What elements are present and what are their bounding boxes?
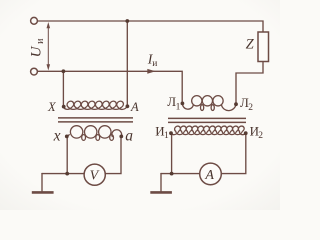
- svg-text:a: a: [125, 128, 133, 145]
- svg-text:A: A: [204, 168, 214, 183]
- svg-text:2: 2: [258, 131, 263, 141]
- svg-text:x: x: [53, 127, 61, 144]
- svg-text:1: 1: [164, 131, 169, 141]
- svg-text:1: 1: [176, 103, 181, 113]
- svg-text:Z: Z: [246, 37, 255, 53]
- svg-text:V: V: [90, 169, 100, 184]
- svg-text:X: X: [47, 100, 57, 114]
- svg-text:и: и: [152, 59, 157, 69]
- svg-text:и: и: [35, 38, 46, 44]
- svg-text:A: A: [130, 100, 139, 114]
- svg-text:2: 2: [248, 103, 253, 113]
- svg-text:U: U: [29, 45, 45, 57]
